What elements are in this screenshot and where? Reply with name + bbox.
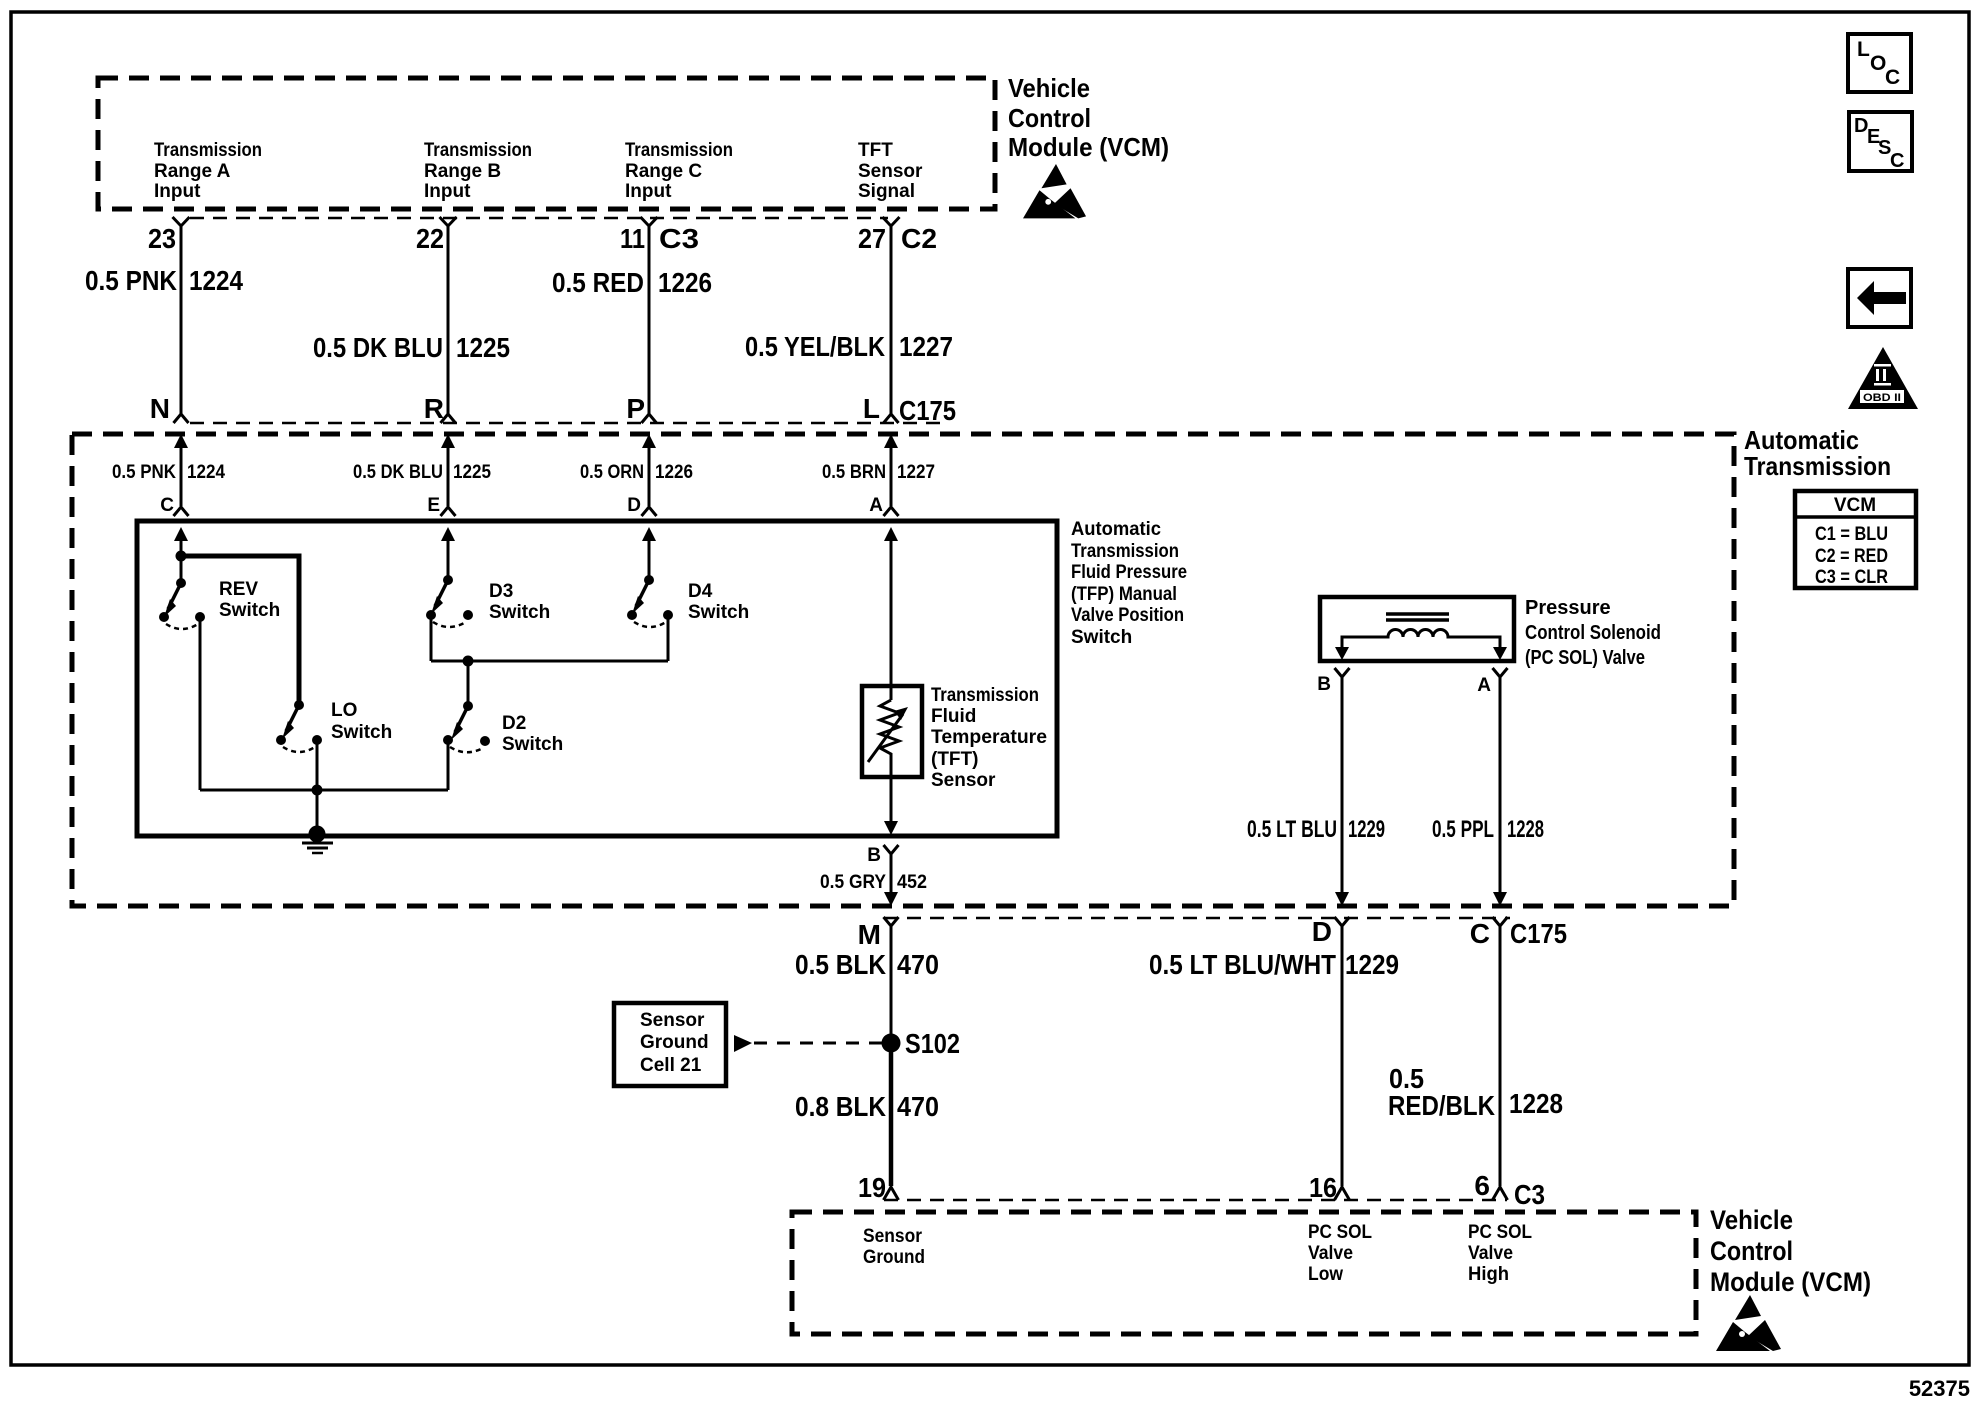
svg-text:C175: C175 <box>1510 918 1567 949</box>
svg-text:1224: 1224 <box>187 462 225 483</box>
wire label 0.5 RED/BLK 1228 <box>1388 1063 1563 1121</box>
svg-text:0.5 ORN: 0.5 ORN <box>580 462 644 483</box>
svg-text:Transmission: Transmission <box>1744 451 1891 481</box>
wire 470 upper (M to S102) <box>890 926 893 1043</box>
svg-text:A: A <box>869 495 883 516</box>
svg-text:19: 19 <box>858 1172 886 1203</box>
svg-text:Control: Control <box>1008 103 1091 133</box>
svg-text:D4: D4 <box>688 581 713 602</box>
connector pin 23 <box>148 217 190 254</box>
svg-text:Vehicle: Vehicle <box>1710 1205 1793 1235</box>
wire A (TFT sensor feed) with up arrow <box>884 527 898 700</box>
svg-text:C2 = RED: C2 = RED <box>1815 546 1888 567</box>
svg-text:1224: 1224 <box>189 265 243 296</box>
svg-text:Pressure: Pressure <box>1525 597 1611 619</box>
svg-text:Switch: Switch <box>219 600 280 621</box>
label Transmission Range C Input <box>625 140 733 202</box>
svg-text:0.5 BRN: 0.5 BRN <box>822 462 886 483</box>
svg-text:REV: REV <box>219 579 258 600</box>
svg-text:Low: Low <box>1308 1264 1343 1285</box>
LO switch <box>276 700 392 752</box>
back arrow nav box <box>1848 269 1911 327</box>
svg-text:6: 6 <box>1474 1170 1490 1201</box>
svg-text:M: M <box>858 919 881 950</box>
svg-text:C: C <box>1885 66 1900 89</box>
svg-text:B: B <box>1317 674 1331 695</box>
connector face line C2/C3 (top row) <box>190 217 888 220</box>
wire C inside box with up arrow <box>174 527 188 583</box>
svg-text:LO: LO <box>331 700 357 721</box>
connector pin 22 <box>416 217 457 254</box>
svg-text:Valve Position: Valve Position <box>1071 605 1184 626</box>
svg-text:0.8 BLK: 0.8 BLK <box>795 1091 886 1122</box>
svg-text:C: C <box>1470 918 1490 949</box>
svg-text:Vehicle: Vehicle <box>1008 73 1090 103</box>
wire D3-D4 common <box>431 656 668 707</box>
VCM top dashed box <box>98 78 995 209</box>
svg-text:Transmission: Transmission <box>931 685 1039 706</box>
connector pin 16 <box>1309 1172 1350 1203</box>
svg-text:0.5 BLK: 0.5 BLK <box>795 949 886 980</box>
svg-text:E: E <box>427 495 440 516</box>
svg-text:OBD II: OBD II <box>1863 392 1901 404</box>
svg-text:1228: 1228 <box>1509 1088 1563 1119</box>
svg-text:C175: C175 <box>899 395 956 426</box>
svg-text:0.5 PPL: 0.5 PPL <box>1432 816 1494 843</box>
label Transmission Range A Input <box>154 140 262 202</box>
pin B of PC SOL <box>1317 668 1349 695</box>
pin A of TFP switch <box>869 495 898 516</box>
svg-text:1227: 1227 <box>897 462 935 483</box>
ESD symbol bottom <box>1716 1295 1781 1351</box>
VCM bottom dashed box <box>792 1212 1696 1334</box>
wire branch to LO switch <box>176 551 300 706</box>
connector face line C175 lower <box>884 917 1510 920</box>
svg-text:RED/BLK: RED/BLK <box>1388 1090 1495 1121</box>
svg-text:27: 27 <box>858 223 886 254</box>
svg-text:0.5 LT BLU: 0.5 LT BLU <box>1247 816 1337 843</box>
connector pin 27 C2 <box>858 217 937 254</box>
svg-text:16: 16 <box>1309 1172 1337 1203</box>
label TFT Sensor Signal <box>858 140 923 202</box>
splice S102 <box>882 1028 961 1059</box>
svg-text:PC SOL: PC SOL <box>1468 1222 1532 1243</box>
wire D4 output down <box>667 618 670 661</box>
label Automatic Transmission Fluid Pressure (TFP) Manual Valve Position Switch <box>1071 519 1187 648</box>
label PC SOL Valve High <box>1468 1222 1532 1285</box>
svg-text:Temperature: Temperature <box>931 727 1047 748</box>
svg-text:Input: Input <box>424 181 471 202</box>
ground at TFP switch <box>302 826 333 854</box>
arrow wire 1228 into C175 <box>1493 892 1507 906</box>
Automatic Transmission dashed box <box>72 434 1734 906</box>
svg-text:22: 22 <box>416 223 444 254</box>
wire 470 lower (S102 to pin 19) <box>889 1043 894 1186</box>
svg-text:(PC SOL) Valve: (PC SOL) Valve <box>1525 647 1645 669</box>
title Vehicle Control Module (VCM) top <box>1008 73 1169 162</box>
svg-text:1226: 1226 <box>655 462 693 483</box>
svg-text:A: A <box>1477 675 1491 696</box>
connector pin 6 C3 <box>1474 1170 1545 1210</box>
svg-text:PC SOL: PC SOL <box>1308 1222 1372 1243</box>
svg-text:Fluid Pressure: Fluid Pressure <box>1071 562 1187 583</box>
wire 1226 (VCM to C175) <box>648 226 651 414</box>
D4 switch <box>627 575 749 627</box>
svg-text:High: High <box>1468 1264 1509 1285</box>
connector pin C C175 lower <box>1470 917 1567 949</box>
svg-text:VCM: VCM <box>1834 495 1876 516</box>
connector pin 11 C3 <box>620 217 699 254</box>
svg-text:Transmission: Transmission <box>625 140 733 161</box>
svg-text:0.5 LT BLU/WHT: 0.5 LT BLU/WHT <box>1149 949 1336 980</box>
wire 1228 (PC SOL A to C175) <box>1499 677 1502 898</box>
svg-text:Ground: Ground <box>863 1247 925 1268</box>
svg-text:Valve: Valve <box>1468 1243 1513 1264</box>
pin B of TFP switch <box>867 845 898 898</box>
svg-text:Sensor: Sensor <box>640 1010 705 1031</box>
LOC nav box <box>1848 34 1911 92</box>
svg-text:L: L <box>863 393 880 424</box>
wire 1229 lower (D to VCM) <box>1341 926 1344 1186</box>
svg-text:0.5 DK BLU: 0.5 DK BLU <box>353 462 443 483</box>
svg-text:N: N <box>150 393 170 424</box>
wire D2 output down <box>447 743 450 790</box>
wire 1229 (PC SOL B to C175) <box>1341 677 1344 898</box>
pin D of TFP switch <box>627 495 656 516</box>
svg-text:(TFP) Manual: (TFP) Manual <box>1071 584 1177 605</box>
pin A of PC SOL <box>1477 668 1507 696</box>
title Vehicle Control Module (VCM) bottom <box>1710 1205 1871 1297</box>
wire D inside box with up arrow <box>642 527 656 580</box>
connector face line C3 bottom <box>884 1199 1507 1202</box>
wire 1228 lower (C to VCM) <box>1499 926 1502 1186</box>
svg-text:Range A: Range A <box>154 161 231 182</box>
D3 switch <box>426 575 550 627</box>
dashed reference arrow to S102 <box>734 1035 882 1052</box>
arrow into AT box wire 1226 <box>642 434 656 506</box>
svg-text:C: C <box>160 495 174 516</box>
svg-text:Automatic: Automatic <box>1071 519 1161 540</box>
svg-text:B: B <box>867 845 881 866</box>
svg-text:11: 11 <box>620 223 645 254</box>
TFT sensor <box>862 686 922 835</box>
svg-text:Switch: Switch <box>489 602 550 623</box>
wire D3 output down <box>430 618 433 661</box>
svg-text:452: 452 <box>897 872 927 893</box>
D2 switch <box>443 701 563 755</box>
Pressure Control Solenoid valve <box>1320 597 1514 661</box>
svg-text:Input: Input <box>154 181 201 202</box>
wire REV output down <box>199 620 202 790</box>
svg-text:Range C: Range C <box>625 161 702 182</box>
svg-text:Valve: Valve <box>1308 1243 1353 1264</box>
wire 1225 (VCM to C175) <box>447 226 450 414</box>
label Transmission Fluid Temperature (TFT) Sensor <box>931 685 1047 791</box>
svg-text:470: 470 <box>897 1091 939 1122</box>
svg-text:R: R <box>424 393 444 424</box>
connector pin M <box>858 917 899 950</box>
svg-text:23: 23 <box>148 223 176 254</box>
svg-text:L: L <box>1857 38 1870 61</box>
svg-text:O: O <box>1870 52 1886 75</box>
OBD II symbol <box>1848 347 1918 409</box>
svg-text:Cell 21: Cell 21 <box>640 1055 702 1076</box>
svg-text:0.5 DK BLU: 0.5 DK BLU <box>313 332 443 363</box>
svg-text:Transmission: Transmission <box>424 140 532 161</box>
svg-text:C1 = BLU: C1 = BLU <box>1815 524 1888 545</box>
junction REV/LO/D2 common <box>200 785 448 796</box>
svg-text:Sensor: Sensor <box>931 770 996 791</box>
svg-text:S102: S102 <box>905 1028 960 1059</box>
connector pin D lower <box>1312 916 1350 947</box>
svg-text:TFT: TFT <box>858 140 893 161</box>
connector pin N <box>150 393 189 424</box>
svg-text:(TFT): (TFT) <box>931 749 978 770</box>
ESD symbol top <box>1023 164 1086 218</box>
svg-text:470: 470 <box>897 949 939 980</box>
Sensor Ground Cell 21 box <box>614 1003 726 1086</box>
svg-text:Range B: Range B <box>424 161 501 182</box>
svg-text:Control: Control <box>1710 1236 1793 1266</box>
svg-text:Switch: Switch <box>502 734 563 755</box>
svg-text:Switch: Switch <box>688 602 749 623</box>
wire LO output down to ground <box>316 743 319 835</box>
label Transmission Range B Input <box>424 140 532 202</box>
arrow into AT box wire 1227 <box>884 434 898 506</box>
svg-text:C3 = CLR: C3 = CLR <box>1815 567 1888 588</box>
arrow into AT box wire 1225 <box>441 434 455 506</box>
svg-text:Ground: Ground <box>640 1032 709 1053</box>
svg-text:Sensor: Sensor <box>863 1226 923 1247</box>
wire E inside box with up arrow <box>441 527 455 580</box>
svg-text:1227: 1227 <box>899 331 953 362</box>
connector pin R <box>424 393 456 424</box>
label Pressure Control Solenoid (PC SOL) Valve <box>1525 597 1661 669</box>
svg-text:P: P <box>626 393 645 424</box>
svg-text:Switch: Switch <box>331 722 392 743</box>
REV switch <box>159 578 280 629</box>
arrow wire 452 into C175 <box>884 892 898 906</box>
TFP manual valve position switch box <box>137 521 1057 836</box>
svg-text:Module (VCM): Module (VCM) <box>1008 132 1169 162</box>
svg-text:0.5 GRY: 0.5 GRY <box>820 872 886 893</box>
label PC SOL Valve Low <box>1308 1222 1372 1285</box>
svg-text:1229: 1229 <box>1348 816 1385 843</box>
VCM connector legend box <box>1795 491 1916 588</box>
svg-text:1225: 1225 <box>456 332 510 363</box>
svg-text:C2: C2 <box>901 223 937 254</box>
svg-text:C: C <box>1890 150 1904 172</box>
svg-text:Transmission: Transmission <box>154 140 262 161</box>
connector pin L C175 <box>863 393 956 426</box>
svg-text:0.5 RED: 0.5 RED <box>552 267 644 298</box>
svg-text:D: D <box>627 495 641 516</box>
svg-text:0.5 YEL/BLK: 0.5 YEL/BLK <box>745 331 885 362</box>
pin C of TFP switch <box>160 495 188 516</box>
label Sensor Ground <box>863 1226 925 1268</box>
svg-text:1225: 1225 <box>453 462 491 483</box>
pin E of TFP switch <box>427 495 455 516</box>
wire 1227 (VCM to C175) <box>890 226 893 414</box>
connector pin 19 <box>858 1172 899 1203</box>
DESC nav box <box>1849 112 1912 172</box>
title Automatic Transmission <box>1744 425 1891 481</box>
svg-text:1226: 1226 <box>658 267 712 298</box>
svg-text:1229: 1229 <box>1345 949 1399 980</box>
svg-text:D: D <box>1312 916 1332 947</box>
svg-text:Module (VCM): Module (VCM) <box>1710 1267 1871 1297</box>
arrow wire 1229 into C175 <box>1335 892 1349 906</box>
svg-text:1228: 1228 <box>1507 816 1544 843</box>
connector pin P <box>626 393 656 424</box>
svg-text:Fluid: Fluid <box>931 706 976 727</box>
svg-text:Input: Input <box>625 181 672 202</box>
svg-text:Switch: Switch <box>1071 627 1132 648</box>
svg-text:Sensor: Sensor <box>858 161 923 182</box>
svg-text:D3: D3 <box>489 581 513 602</box>
svg-text:0.5 PNK: 0.5 PNK <box>112 462 176 483</box>
arrow into AT box wire 1224 <box>174 434 188 506</box>
svg-text:0.5 PNK: 0.5 PNK <box>85 265 177 296</box>
svg-text:Signal: Signal <box>858 181 915 202</box>
svg-text:Transmission: Transmission <box>1071 541 1179 562</box>
wire 1224 (VCM to C175) <box>180 226 183 414</box>
svg-text:D2: D2 <box>502 713 526 734</box>
connector face line C175 upper <box>190 422 945 425</box>
svg-text:52375: 52375 <box>1909 1376 1970 1401</box>
svg-text:Control Solenoid: Control Solenoid <box>1525 622 1661 644</box>
svg-text:C3: C3 <box>659 223 699 254</box>
svg-text:C3: C3 <box>1514 1179 1545 1210</box>
